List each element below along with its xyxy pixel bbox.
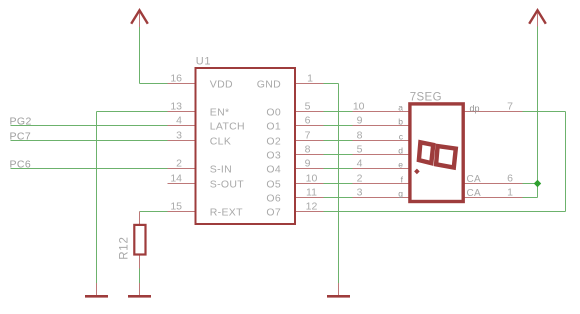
svg-text:CA: CA xyxy=(467,174,482,185)
svg-text:1: 1 xyxy=(307,72,313,84)
svg-text:S-IN: S-IN xyxy=(210,163,232,175)
svg-text:a: a xyxy=(398,103,403,113)
svg-text:9: 9 xyxy=(305,157,311,169)
svg-text:d: d xyxy=(398,146,403,156)
svg-text:S-OUT: S-OUT xyxy=(210,178,244,190)
svg-text:PG2: PG2 xyxy=(10,116,32,128)
svg-text:g: g xyxy=(398,189,403,199)
svg-text:b: b xyxy=(398,117,403,127)
svg-text:O2: O2 xyxy=(266,135,281,147)
svg-text:14: 14 xyxy=(170,172,182,184)
svg-text:16: 16 xyxy=(170,72,182,84)
svg-text:U1: U1 xyxy=(196,55,211,67)
svg-text:11: 11 xyxy=(306,186,317,198)
svg-text:10: 10 xyxy=(306,172,318,184)
svg-text:4: 4 xyxy=(357,157,363,169)
svg-text:R12: R12 xyxy=(118,236,130,260)
svg-text:3: 3 xyxy=(357,186,363,198)
svg-text:1: 1 xyxy=(507,186,513,198)
svg-text:R-EXT: R-EXT xyxy=(210,206,243,218)
svg-text:EN*: EN* xyxy=(210,106,230,118)
svg-text:9: 9 xyxy=(357,114,363,126)
svg-text:PC6: PC6 xyxy=(10,159,32,171)
svg-text:e: e xyxy=(398,160,403,170)
svg-text:3: 3 xyxy=(176,129,182,141)
svg-text:CLK: CLK xyxy=(210,135,231,147)
svg-text:8: 8 xyxy=(305,143,311,155)
svg-text:dp: dp xyxy=(470,104,480,114)
svg-text:O7: O7 xyxy=(266,206,281,218)
svg-text:PC7: PC7 xyxy=(10,131,32,143)
svg-text:O4: O4 xyxy=(266,163,281,175)
svg-text:7: 7 xyxy=(305,129,311,141)
svg-text:6: 6 xyxy=(507,172,513,184)
svg-text:CA: CA xyxy=(467,188,482,199)
svg-text:7: 7 xyxy=(507,100,513,112)
svg-text:O3: O3 xyxy=(266,149,281,161)
svg-text:4: 4 xyxy=(176,114,182,126)
svg-text:6: 6 xyxy=(305,114,311,126)
svg-text:12: 12 xyxy=(306,200,318,212)
svg-text:15: 15 xyxy=(170,200,182,212)
svg-text:13: 13 xyxy=(170,100,182,112)
svg-text:2: 2 xyxy=(176,157,182,169)
svg-text:8: 8 xyxy=(357,129,363,141)
svg-text:GND: GND xyxy=(257,78,281,90)
svg-text:7SEG: 7SEG xyxy=(410,92,442,104)
svg-text:5: 5 xyxy=(357,143,363,155)
svg-text:LATCH: LATCH xyxy=(210,120,245,132)
svg-text:VDD: VDD xyxy=(210,78,233,90)
svg-text:O0: O0 xyxy=(266,106,281,118)
svg-text:10: 10 xyxy=(353,100,365,112)
svg-text:O5: O5 xyxy=(266,178,281,190)
svg-text:O6: O6 xyxy=(266,192,281,204)
svg-text:5: 5 xyxy=(305,100,311,112)
svg-text:O1: O1 xyxy=(266,120,281,132)
svg-text:2: 2 xyxy=(357,172,363,184)
